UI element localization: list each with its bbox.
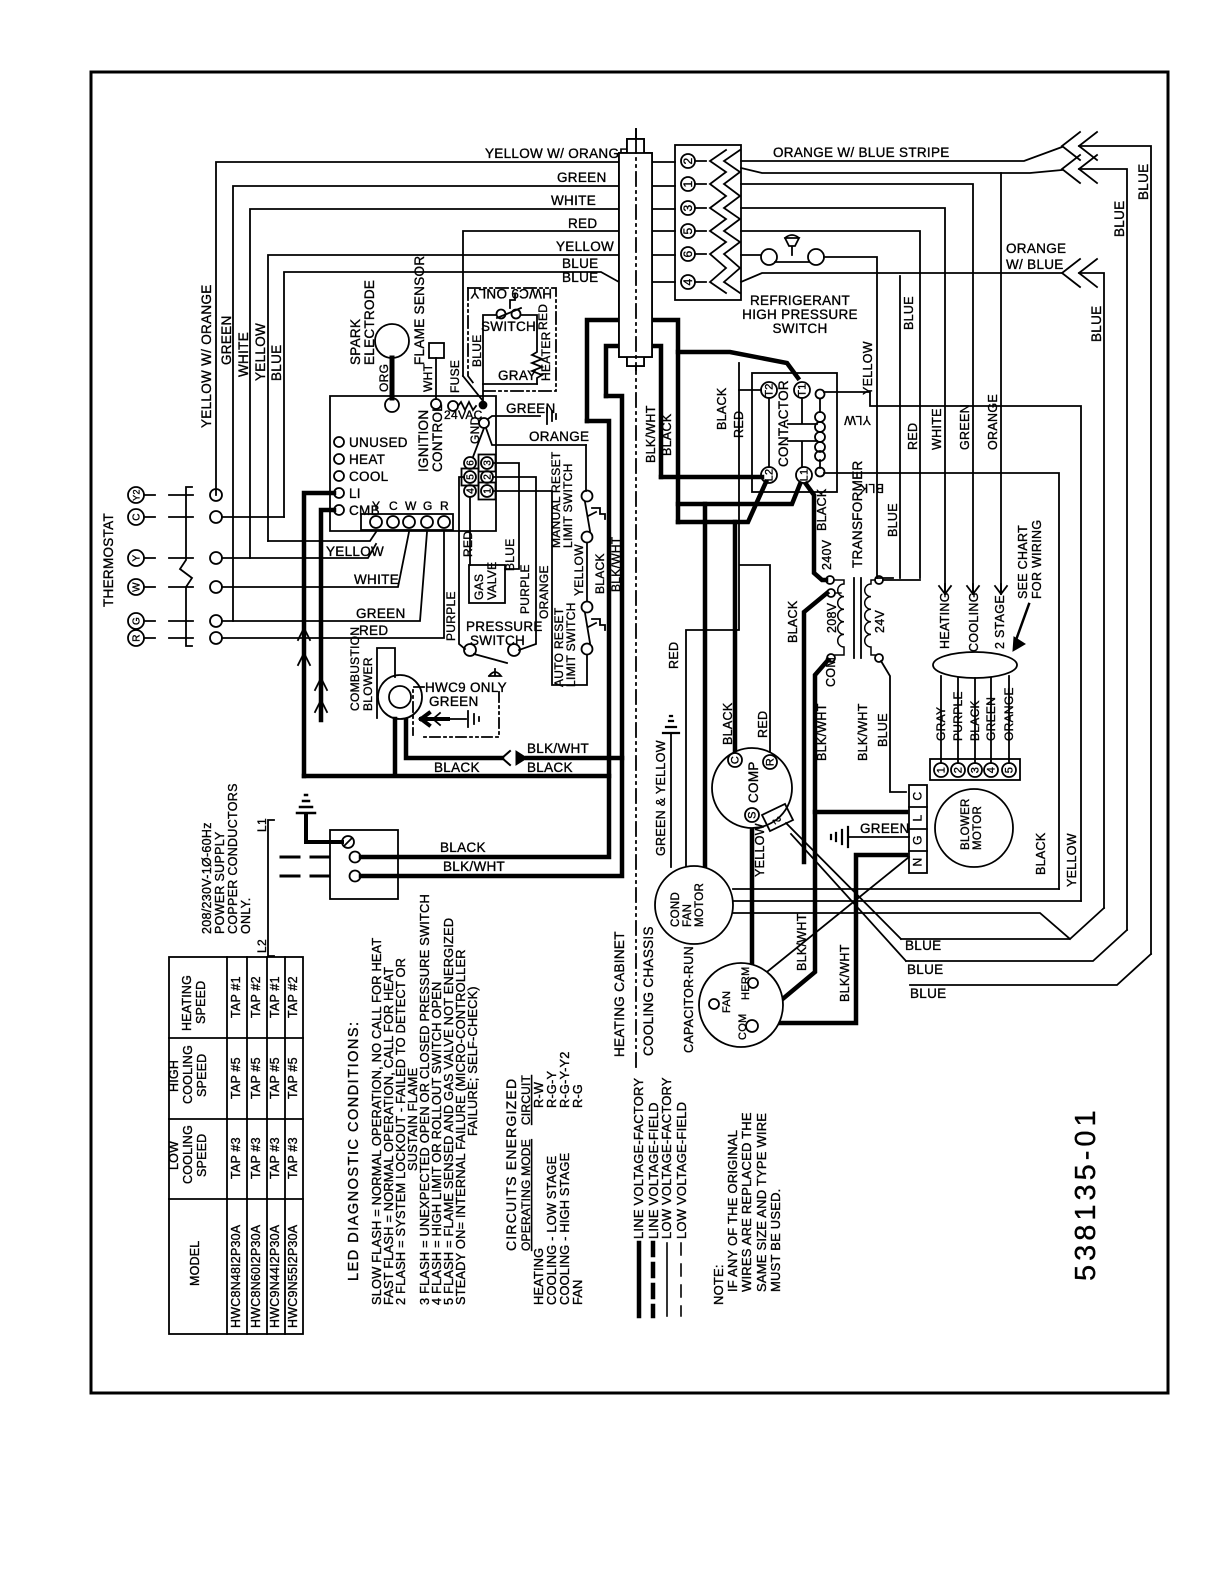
svg-text:L2: L2 — [255, 939, 269, 953]
border frame — [91, 72, 1168, 1393]
centerline overlay — [635, 129, 637, 370]
svg-text:HIGH: HIGH — [167, 1060, 181, 1092]
svg-text:SEE CHART: SEE CHART — [1016, 525, 1030, 599]
wire pin1 orange down — [493, 491, 587, 685]
L1 to transformer 240V — [806, 484, 826, 580]
svg-text:BLUE: BLUE — [876, 713, 890, 747]
svg-text:W: W — [405, 499, 417, 513]
auto reset limit switch contact B — [582, 644, 593, 655]
terminal 4 — [984, 763, 998, 777]
run cap wire 2 — [791, 834, 906, 961]
ground symbol (blower) — [831, 827, 848, 847]
wire pin1 branch to chevron plug 2 — [741, 168, 1127, 930]
wire row R to terminal R — [222, 532, 444, 638]
thermostat terminal Y — [128, 550, 144, 566]
svg-text:R: R — [765, 758, 777, 766]
cond fan motor — [655, 866, 733, 944]
svg-text:RED: RED — [732, 411, 746, 438]
svg-text:RED: RED — [536, 304, 550, 330]
contactor L2 — [761, 467, 777, 483]
blk/wht arrow splice — [502, 751, 510, 765]
field wiring dashes L1 — [281, 857, 329, 876]
ignition control box — [330, 396, 496, 531]
transformer 240V terminal — [826, 576, 834, 584]
svg-text:BLACK: BLACK — [440, 840, 486, 855]
blue wire 1 — [901, 908, 1104, 939]
svg-text:5: 5 — [466, 474, 477, 480]
24V secondary blue wire down — [881, 661, 906, 792]
svg-text:LOW VOLTAGE-FIELD: LOW VOLTAGE-FIELD — [674, 1102, 689, 1239]
thermostat field wiring dashes — [145, 495, 193, 638]
svg-text:HWC9 ONLY: HWC9 ONLY — [470, 286, 552, 301]
wire blue (pin 4) — [284, 272, 675, 517]
ellipse to terminal wires — [941, 676, 1009, 763]
208V black wire — [804, 593, 827, 862]
svg-text:C: C — [730, 756, 742, 764]
svg-text:BLUE: BLUE — [1112, 201, 1127, 237]
SEC:RIGHT — [169, 957, 303, 1334]
svg-text:CIRCUITS ENERGIZED: CIRCUITS ENERGIZED — [503, 1078, 519, 1251]
transformer COM terminal — [827, 654, 835, 662]
svg-text:SPEED: SPEED — [194, 981, 208, 1024]
svg-text:COMBUSTION: COMBUSTION — [348, 627, 362, 711]
svg-text:L1: L1 — [255, 818, 269, 832]
legend sample low voltage field — [680, 1243, 682, 1316]
wire row C to blue — [222, 516, 284, 518]
svg-text:1: 1 — [681, 180, 695, 187]
wire gray (hwc9 bottom) — [483, 384, 537, 401]
flame sensor stem — [435, 358, 437, 399]
chevron plug pair 2 — [1062, 155, 1097, 183]
svg-text:PURPLE: PURPLE — [518, 564, 532, 614]
pin 3 — [481, 457, 493, 469]
manual reset limit switch lever — [585, 502, 605, 531]
ground symbol (hwc9) — [468, 711, 479, 727]
svg-text:6: 6 — [681, 250, 695, 257]
24VAC fuse terminal — [448, 401, 458, 411]
ground symbol (power) — [297, 795, 315, 813]
heating arrow — [939, 584, 951, 594]
svg-text:TAP #5: TAP #5 — [249, 1057, 263, 1099]
svg-text:BLK/WHT: BLK/WHT — [644, 405, 658, 463]
thermostat bracket — [180, 487, 192, 646]
svg-text:N: N — [911, 858, 925, 867]
24V top wire to blue/red verticals — [877, 578, 920, 580]
svg-text:R: R — [132, 634, 143, 642]
thick black T1 feed — [678, 352, 798, 378]
svg-text:3: 3 — [970, 767, 982, 773]
pin 2 — [481, 471, 493, 483]
blower N to capacitor com thick — [757, 855, 906, 1023]
pin 1 — [481, 485, 493, 497]
svg-text:BLUE: BLUE — [562, 270, 598, 285]
spark electrode stem — [390, 358, 395, 398]
refrigerant high pressure switch contact B — [808, 249, 824, 265]
svg-text:BLUE: BLUE — [1136, 164, 1151, 200]
comp terminal R — [763, 755, 777, 769]
svg-text:G: G — [132, 617, 143, 625]
pin 5 — [464, 471, 476, 483]
svg-text:GREEN: GREEN — [860, 821, 910, 836]
legend sample line voltage factory — [637, 1243, 642, 1316]
wire red into fuse junction — [463, 376, 483, 401]
svg-text:208V: 208V — [825, 602, 839, 633]
svg-text:WHITE: WHITE — [930, 408, 944, 450]
table row lines — [227, 957, 285, 1334]
contactor T2 — [761, 382, 777, 398]
wire pin4 to gas valve (red) — [469, 497, 471, 565]
svg-text:ELECTRODE: ELECTRODE — [362, 280, 377, 365]
cooling arrow — [967, 584, 979, 594]
svg-text:BLACK: BLACK — [527, 760, 573, 775]
black main vertical — [361, 421, 609, 857]
svg-text:W: W — [132, 582, 143, 592]
connector harness outer body — [619, 153, 652, 357]
svg-text:GREEN: GREEN — [356, 606, 406, 621]
model table outline — [169, 957, 303, 1334]
svg-text:COM: COM — [824, 657, 838, 687]
svg-text:BLUE: BLUE — [269, 345, 284, 381]
svg-text:HEATER: HEATER — [539, 331, 553, 381]
svg-text:4: 4 — [466, 488, 477, 494]
svg-text:HWC8N60I2P30A: HWC8N60I2P30A — [249, 1224, 263, 1328]
svg-text:WHITE: WHITE — [354, 572, 399, 587]
svg-text:3: 3 — [681, 204, 695, 211]
contactor box — [752, 373, 837, 492]
connector harness redraw (over line voltage wires) — [627, 139, 644, 366]
svg-text:CAPACITOR-RUN: CAPACITOR-RUN — [682, 946, 696, 1053]
svg-text:RED: RED — [667, 642, 681, 669]
svg-text:RED: RED — [359, 623, 388, 638]
svg-text:WHT: WHT — [421, 363, 435, 392]
field bracket — [268, 820, 274, 956]
svg-text:L2: L2 — [764, 469, 776, 482]
wire harness centerline (heating cabinet / cooling chassis divider) — [635, 129, 637, 1069]
connector pin 1 outline — [479, 483, 496, 500]
refrigerant high pressure switch lever and bellows — [775, 235, 809, 262]
pin 4 — [464, 485, 476, 497]
cond fan yellow wire — [733, 900, 1081, 902]
wire LI black thick — [304, 493, 334, 776]
svg-text:C: C — [389, 499, 398, 513]
terminal 5 — [1002, 763, 1016, 777]
svg-text:HEAT: HEAT — [349, 452, 385, 467]
wire pin3 to gas valve (blue) — [493, 463, 519, 569]
rollout switch contact A — [497, 310, 506, 319]
capacitor COM terminal — [746, 1020, 758, 1032]
svg-text:SAME SIZE AND TYPE WIRE: SAME SIZE AND TYPE WIRE — [754, 1113, 769, 1292]
wire pin1 to green vertical — [741, 184, 973, 594]
wire orange to manual reset limit switch — [585, 445, 587, 491]
svg-text:HWC9N44I2P30A: HWC9N44I2P30A — [268, 1224, 282, 1328]
contactor coil — [819, 399, 821, 468]
gas valve box — [469, 565, 505, 603]
capacitor FAN terminal — [709, 999, 719, 1009]
see chart pointer — [1016, 604, 1029, 640]
svg-text:T2: T2 — [764, 383, 776, 396]
wire CMB black thick — [321, 510, 334, 720]
blower terminal strip NGLC — [909, 785, 927, 873]
combustion blower outer — [378, 675, 422, 719]
transformer 24V bottom terminal — [875, 654, 883, 662]
heater resistor (hwc9) — [521, 315, 542, 384]
spark electrode circle — [375, 324, 409, 358]
svg-text:BLUE: BLUE — [886, 503, 900, 537]
svg-text:BLACK: BLACK — [593, 553, 607, 594]
svg-text:PRESSURE: PRESSURE — [466, 619, 543, 634]
comp S yellow wire — [750, 824, 755, 963]
pin box — [675, 145, 741, 300]
contactor coil terminal top — [816, 390, 825, 399]
spark electrode terminal — [385, 398, 399, 412]
ground symbol (green yellow) — [663, 716, 679, 733]
legend sample low voltage factory — [666, 1243, 668, 1316]
svg-text:4: 4 — [681, 278, 695, 285]
svg-text:YELLOW: YELLOW — [556, 239, 614, 254]
thick comp C feed — [733, 522, 738, 752]
svg-text:208/230V-1Ø-60Hz: 208/230V-1Ø-60Hz — [200, 822, 214, 934]
svg-text:PURPLE: PURPLE — [951, 691, 965, 741]
svg-text:GREEN: GREEN — [506, 401, 556, 416]
capacitor HERM terminal — [748, 978, 758, 988]
wiring ellipse — [933, 652, 1017, 678]
svg-text:SPEED: SPEED — [195, 1134, 209, 1177]
wire row Y to terminal Y — [222, 544, 376, 558]
wire pin4 (orange w/ blue) to chevron plug 3 — [741, 273, 1104, 908]
svg-text:2: 2 — [483, 474, 494, 480]
svg-text:FUSE: FUSE — [448, 360, 462, 393]
svg-text:1: 1 — [936, 767, 948, 773]
SEC:TOP2 — [128, 288, 605, 685]
transformer primary coil — [834, 580, 844, 655]
wire gnd to pin6 — [473, 428, 484, 457]
svg-text:HEATING CABINET: HEATING CABINET — [612, 931, 627, 1057]
flame sensor body — [429, 343, 444, 358]
svg-text:COOLING: COOLING — [181, 1045, 195, 1104]
line voltage blk/wht loop over harness — [606, 346, 661, 477]
unit terminal circles facing thermostat — [210, 489, 222, 501]
chevron plug pair 3 — [1062, 259, 1097, 287]
svg-text:WHITE: WHITE — [551, 193, 596, 208]
svg-text:COPPER CONDUCTORS: COPPER CONDUCTORS — [226, 783, 240, 934]
svg-text:C: C — [132, 513, 143, 521]
comp circle — [712, 748, 792, 828]
svg-text:BLACK: BLACK — [815, 488, 829, 531]
contactor L1 — [796, 467, 812, 483]
svg-text:2: 2 — [953, 767, 965, 773]
pin 6 — [681, 247, 695, 261]
wire blue (hwc9 left) — [483, 315, 496, 384]
svg-text:R: R — [440, 499, 449, 513]
terminal R — [438, 516, 450, 528]
connector pin 3 outline — [479, 455, 496, 472]
svg-text:GREEN: GREEN — [557, 170, 607, 185]
pressure switch bellows — [489, 669, 501, 676]
svg-text:GREEN: GREEN — [219, 315, 234, 365]
svg-text:MODEL: MODEL — [188, 1241, 202, 1286]
svg-text:SPARK: SPARK — [348, 319, 363, 365]
svg-text:HEATING: HEATING — [938, 592, 952, 649]
transformer 24V top terminal — [875, 576, 883, 584]
svg-text:BLK/WHT: BLK/WHT — [856, 703, 870, 761]
svg-text:LOW: LOW — [167, 1141, 181, 1170]
terminal G — [421, 516, 433, 528]
svg-text:YELLOW: YELLOW — [753, 823, 767, 877]
hwc9 green arrow — [421, 713, 448, 725]
run cap wire 1 — [786, 823, 901, 939]
SEC:LEFT2 — [361, 320, 906, 1023]
wire blue branch down — [899, 276, 901, 578]
herm to blower N wire — [757, 857, 909, 980]
svg-text:LOW VOLTAGE-FACTORY: LOW VOLTAGE-FACTORY — [659, 1077, 674, 1239]
legend sample line voltage field — [651, 1243, 656, 1316]
wire white (pin 3) — [250, 209, 675, 558]
thermostat terminal R — [128, 630, 144, 646]
svg-text:IF ANY OF THE ORIGINAL: IF ANY OF THE ORIGINAL — [725, 1130, 740, 1292]
terminal strip 1-5 box — [930, 759, 1020, 780]
svg-text:BLUE: BLUE — [1089, 306, 1104, 342]
2 stage arrow — [995, 584, 1007, 594]
wire gnd to green ground — [488, 416, 540, 419]
svg-text:ORANGE W/ BLUE STRIPE: ORANGE W/ BLUE STRIPE — [773, 145, 950, 160]
comp terminal C — [728, 753, 742, 767]
auto reset limit switch contact A — [582, 602, 593, 613]
svg-text:COMP: COMP — [746, 761, 761, 803]
wire row W to terminal W — [222, 532, 409, 587]
wire green (pin 1) — [233, 186, 675, 621]
wire yellow (pin 6) — [268, 255, 675, 541]
svg-text:YELLOW: YELLOW — [572, 544, 586, 596]
svg-text:BLACK: BLACK — [434, 760, 480, 775]
up arrow on CMB wire — [315, 678, 327, 720]
ignition terminal COOL — [334, 471, 344, 481]
comp terminal S — [745, 808, 759, 822]
svg-text:MOTOR: MOTOR — [694, 883, 706, 927]
svg-text:L: L — [911, 814, 925, 821]
svg-text:COOLING CHASSIS: COOLING CHASSIS — [641, 926, 656, 1056]
svg-text:TAP #3: TAP #3 — [229, 1137, 243, 1179]
svg-text:BLK/WHT: BLK/WHT — [443, 859, 505, 874]
wire row G to terminal G — [222, 532, 427, 621]
svg-text:CONTROL: CONTROL — [430, 404, 445, 472]
power ground screw — [342, 836, 354, 848]
rollout switch lever — [497, 294, 521, 318]
svg-text:BLUE: BLUE — [503, 538, 517, 571]
svg-text:YLW: YLW — [844, 413, 871, 427]
svg-text:YELLOW W/ ORANGE: YELLOW W/ ORANGE — [485, 146, 629, 161]
svg-text:TAP #1: TAP #1 — [268, 976, 282, 1018]
ignition terminal CMB — [334, 505, 344, 515]
terminal Y — [370, 516, 382, 528]
svg-text:WHITE: WHITE — [236, 332, 251, 377]
svg-text:Y: Y — [132, 554, 143, 561]
terminal 2 — [951, 763, 965, 777]
hwc9 green ground wire — [448, 718, 466, 720]
pin 5 — [681, 224, 695, 238]
svg-text:5: 5 — [681, 227, 695, 234]
power supply box — [330, 830, 398, 899]
svg-text:FAN: FAN — [682, 904, 694, 927]
svg-text:BLACK: BLACK — [721, 702, 735, 745]
pin 2 — [681, 154, 695, 168]
wire orange (down right) — [1000, 173, 1002, 594]
pressure switch lever — [474, 654, 507, 663]
up arrow on LI wire — [298, 628, 310, 676]
ground symbol (green) — [547, 408, 556, 424]
pressure switch contact B — [508, 644, 520, 656]
svg-text:BLK/WHT: BLK/WHT — [527, 741, 589, 756]
svg-text:TAP #5: TAP #5 — [229, 1057, 243, 1099]
thick cond fan feed — [703, 504, 708, 867]
svg-text:T1: T1 — [797, 383, 809, 396]
svg-text:BLACK: BLACK — [1034, 832, 1048, 875]
svg-text:VALVE: VALVE — [485, 562, 499, 600]
svg-text:ORANGE: ORANGE — [1002, 687, 1016, 741]
svg-text:POWER SUPPLY: POWER SUPPLY — [213, 831, 227, 934]
svg-text:GAS: GAS — [472, 574, 486, 600]
blue wire 3 — [910, 954, 1151, 985]
svg-text:BLK/WHT: BLK/WHT — [815, 703, 829, 761]
svg-text:BLOWER: BLOWER — [361, 657, 375, 711]
blue wire 2 — [906, 930, 1127, 961]
svg-text:3: 3 — [483, 460, 494, 466]
svg-text:ORANGE: ORANGE — [1006, 241, 1066, 256]
svg-text:BLACK: BLACK — [660, 413, 674, 456]
svg-text:WIRES ARE REPLACED THE: WIRES ARE REPLACED THE — [739, 1112, 754, 1292]
svg-text:MUST BE USED.: MUST BE USED. — [768, 1189, 783, 1293]
combustion blower black wire — [304, 719, 609, 776]
svg-text:RED: RED — [906, 423, 920, 450]
svg-text:SWITCH: SWITCH — [772, 321, 827, 336]
wire pin5 to pressure switch (purple) — [459, 477, 465, 649]
flame sensor terminal — [431, 399, 441, 409]
svg-text:FOR WIRING: FOR WIRING — [1030, 520, 1044, 599]
svg-text:MOTOR: MOTOR — [972, 806, 984, 850]
svg-text:BLUE: BLUE — [910, 986, 946, 1001]
svg-text:GREEN: GREEN — [958, 404, 972, 450]
centerline redraw — [635, 139, 637, 366]
wire red (pin 5) — [463, 231, 675, 376]
svg-text:2: 2 — [681, 157, 695, 164]
blower motor circle — [935, 789, 1013, 867]
wire yellow between switches — [586, 543, 588, 601]
svg-text:24V: 24V — [873, 609, 887, 633]
hwc9 green chevron splice — [433, 713, 440, 725]
wire gnd to orange row — [486, 428, 586, 445]
HWC9 only dashed box (top) — [468, 288, 556, 391]
svg-text:COOLING: COOLING — [181, 1125, 195, 1184]
svg-text:4: 4 — [986, 767, 998, 773]
pin 6 — [464, 457, 476, 469]
svg-text:HEATING: HEATING — [180, 975, 194, 1031]
svg-text:BLACK: BLACK — [968, 700, 982, 741]
svg-text:FAILURE; SELF-CHECK): FAILURE; SELF-CHECK) — [465, 986, 480, 1136]
svg-text:COND: COND — [670, 892, 682, 927]
svg-text:TAP #3: TAP #3 — [268, 1137, 282, 1179]
svg-text:LI: LI — [349, 486, 361, 501]
transformer com to capacitor com blk/wht — [755, 660, 828, 1022]
wire yellow w/ orange (pin 2) — [216, 162, 675, 495]
terminal 3 — [968, 763, 982, 777]
svg-text:RED: RED — [568, 216, 597, 231]
wire pin3 to white vertical — [741, 208, 945, 594]
contactor T1 — [794, 382, 810, 398]
svg-text:LIMIT SWITCH: LIMIT SWITCH — [564, 602, 578, 687]
wire pin6 to refrigerant high pressure switch — [741, 254, 761, 256]
svg-text:YELLOW: YELLOW — [253, 323, 268, 381]
power terminal L1 — [350, 852, 361, 863]
svg-text:GREEN: GREEN — [429, 694, 479, 709]
